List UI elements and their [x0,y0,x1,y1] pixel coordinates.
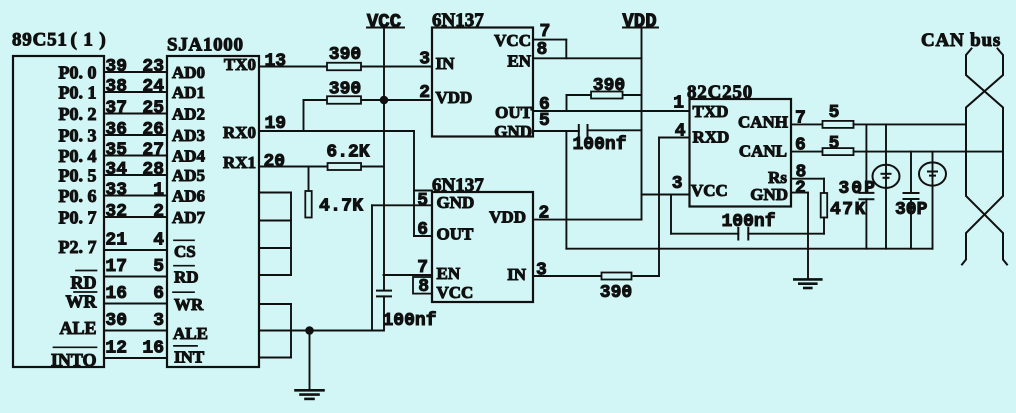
svg-text:82C250: 82C250 [687,82,753,103]
svg-text:WR: WR [174,295,204,314]
svg-text:7: 7 [795,109,806,129]
svg-text:GND: GND [494,122,532,141]
svg-text:2: 2 [795,178,806,198]
svg-text:30P: 30P [839,179,877,199]
svg-text:AD6: AD6 [172,187,205,206]
svg-text:AD2: AD2 [172,105,205,124]
svg-text:ALE: ALE [173,324,208,343]
svg-text:47K: 47K [830,200,867,220]
svg-text:TXD: TXD [693,102,729,121]
svg-text:19: 19 [265,114,287,134]
svg-text:8: 8 [537,40,548,60]
svg-text:36: 36 [105,120,127,140]
svg-text:390: 390 [593,76,625,96]
svg-text:P0. 2: P0. 2 [59,104,97,124]
svg-text:P0. 1: P0. 1 [59,82,97,102]
svg-text:30: 30 [105,311,127,331]
svg-text:100nf: 100nf [383,311,437,331]
svg-text:34: 34 [105,160,127,180]
svg-text:P0. 7: P0. 7 [59,207,97,227]
svg-text:IN: IN [436,54,456,73]
svg-text:EN: EN [507,52,531,71]
svg-text:RX1: RX1 [223,153,256,172]
svg-text:32: 32 [105,202,127,222]
svg-text:P0. 6: P0. 6 [59,186,97,206]
svg-text:100nf: 100nf [573,135,627,155]
svg-text:RD: RD [174,268,199,287]
svg-text:P0. 4: P0. 4 [59,146,97,166]
svg-text:23: 23 [142,57,164,77]
svg-text:390: 390 [600,283,632,303]
svg-text:7: 7 [417,258,428,278]
svg-text:24: 24 [142,77,164,97]
svg-text:5: 5 [829,103,840,123]
svg-text:30P: 30P [895,200,928,220]
svg-text:6: 6 [417,220,428,240]
svg-text:EN: EN [437,264,461,283]
svg-text:33: 33 [105,180,127,200]
svg-text:AD7: AD7 [172,208,206,227]
svg-text:IN: IN [507,265,527,284]
svg-text:CS: CS [174,242,196,261]
svg-text:89C51: 89C51 [12,29,68,50]
svg-text:25: 25 [142,98,164,118]
svg-text:8: 8 [418,277,429,297]
svg-text:INT: INT [174,348,205,367]
svg-text:28: 28 [142,160,164,180]
svg-text:21: 21 [105,230,127,250]
svg-text:CANL: CANL [739,142,787,161]
svg-text:3: 3 [672,174,683,194]
svg-text:GND: GND [750,185,788,204]
svg-text:ALE: ALE [59,318,96,338]
svg-text:16: 16 [105,284,127,304]
svg-text:4: 4 [675,122,686,142]
svg-text:100nf: 100nf [722,212,776,232]
svg-text:27: 27 [142,140,164,160]
svg-text:1: 1 [153,180,164,200]
svg-text:VCC: VCC [437,283,474,302]
svg-text:3: 3 [536,260,547,280]
svg-text:VDD: VDD [436,88,473,107]
svg-text:VDD: VDD [489,208,526,227]
svg-text:390: 390 [329,45,361,65]
svg-text:VCC: VCC [494,31,531,50]
svg-text:AD5: AD5 [172,166,205,185]
svg-text:OUT: OUT [495,103,533,122]
svg-text:37: 37 [105,98,127,118]
svg-text:AD0: AD0 [172,63,205,82]
svg-text:4: 4 [153,230,164,250]
svg-text:P2. 7: P2. 7 [59,237,97,257]
svg-text:INTO: INTO [51,350,97,370]
svg-text:13: 13 [265,51,287,71]
svg-text:6: 6 [153,284,164,304]
svg-text:3: 3 [153,311,164,331]
svg-text:6.2K: 6.2K [326,142,369,162]
svg-text:CAN bus: CAN bus [921,30,1001,51]
svg-text:RXD: RXD [693,127,730,146]
svg-text:AD4: AD4 [172,147,206,166]
svg-text:P0. 5: P0. 5 [59,165,97,185]
svg-text:P0. 0: P0. 0 [59,62,97,82]
svg-text:(1): (1) [71,29,113,50]
svg-text:TX0: TX0 [224,55,256,74]
svg-text:2: 2 [419,83,430,103]
svg-text:17: 17 [105,257,127,277]
svg-text:P0. 3: P0. 3 [59,125,97,145]
svg-text:5: 5 [417,191,428,211]
svg-text:6N137: 6N137 [432,10,484,31]
svg-text:OUT: OUT [437,225,475,244]
svg-text:CANH: CANH [738,113,788,132]
svg-text:5: 5 [153,257,164,277]
svg-text:5: 5 [829,134,840,154]
svg-text:AD3: AD3 [172,126,205,145]
svg-text:12: 12 [105,338,127,358]
svg-text:26: 26 [142,120,164,140]
svg-text:AD1: AD1 [172,83,205,102]
svg-text:3: 3 [419,49,430,69]
svg-text:VDD: VDD [622,10,656,32]
svg-text:WR: WR [66,291,98,311]
svg-text:SJA1000: SJA1000 [167,34,244,55]
svg-text:39: 39 [105,57,127,77]
svg-text:4.7K: 4.7K [319,196,363,216]
svg-text:20: 20 [264,152,286,172]
svg-text:390: 390 [329,79,361,99]
svg-text:38: 38 [105,77,127,97]
svg-text:35: 35 [105,140,127,160]
svg-text:GND: GND [437,193,475,212]
svg-text:16: 16 [142,338,164,358]
svg-text:5: 5 [539,111,550,131]
svg-text:VCC: VCC [691,181,728,200]
svg-text:RD: RD [71,272,97,292]
svg-text:RX0: RX0 [223,123,256,142]
svg-text:1: 1 [673,93,684,113]
svg-text:2: 2 [153,202,164,222]
